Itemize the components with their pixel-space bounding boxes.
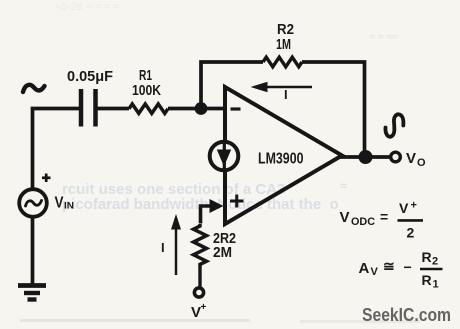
wire: output node to terminal (366, 155, 390, 159)
label I (feedback) (284, 87, 288, 102)
svg-text:1M: 1M (276, 36, 291, 53)
watermark SeekIC.com (362, 305, 451, 325)
wire: source to ground (31, 217, 35, 285)
svg-text:V: V (191, 304, 201, 321)
svg-text:I: I (284, 87, 288, 102)
svg-text:V: V (55, 195, 65, 212)
svg-text:R: R (422, 249, 432, 265)
svg-text:O: O (417, 157, 426, 169)
resistor 2R2 (194, 224, 207, 268)
label V+ (191, 302, 207, 321)
label LM3900 (258, 151, 304, 168)
svg-text:100K: 100K (132, 82, 161, 99)
node: output junction (359, 150, 373, 164)
terminal Vo (open circle) (391, 152, 401, 162)
label VIN (55, 195, 75, 212)
svg-text:V: V (399, 200, 409, 216)
capacitor C1 0.05uF (81, 89, 96, 127)
svg-text:+: + (411, 200, 417, 212)
resistor R2 (263, 57, 302, 67)
current mirror symbol (circle with down arrow) (210, 142, 239, 171)
svg-text:R: R (422, 272, 432, 288)
svg-text:≈ ≈ ≈≈: ≈ ≈ ≈≈ (370, 32, 398, 43)
wire: 2R2 to plus input (with arrowhead) (201, 199, 224, 224)
svg-text:IN: IN (64, 201, 74, 211)
label R2 1M (276, 21, 294, 53)
svg-text:V: V (340, 209, 350, 226)
wire: junction to op-amp minus input (201, 107, 225, 111)
svg-text:2M: 2M (213, 244, 232, 261)
svg-text:≅: ≅ (383, 258, 395, 274)
svg-text:V: V (406, 150, 416, 167)
svg-text:≈: ≈ (340, 178, 347, 193)
terminal V+ (open circle) (194, 288, 203, 297)
wire: op-amp output to node (340, 155, 365, 159)
svg-text:SeekIC.com: SeekIC.com (362, 305, 451, 325)
svg-text:A: A (359, 260, 370, 277)
svg-text:2: 2 (407, 225, 415, 241)
op-amp U1 (triangle) (225, 87, 342, 224)
svg-text:−: − (404, 259, 412, 275)
wire: R2 to output node (right side of feedback loop) (302, 62, 365, 157)
wire: capacitor to R1 (98, 107, 130, 111)
source VIN (AC source circle) (19, 174, 50, 217)
svg-text:+: + (201, 302, 207, 313)
resistor R1 (129, 104, 168, 113)
output waveform squiggle (385, 114, 403, 136)
svg-text:≈5-26 ≈ ≈ ≈ ≈: ≈5-26 ≈ ≈ ≈ ≈ (55, 1, 119, 13)
svg-text:LM3900: LM3900 (258, 151, 304, 168)
svg-text:I: I (161, 240, 165, 255)
label 0.05uF (67, 68, 113, 85)
formula AV = -R2/R1 (359, 249, 443, 291)
svg-text:ODC: ODC (351, 216, 375, 228)
wire: source to capacitor (left corner) (33, 109, 80, 190)
svg-text:2: 2 (432, 256, 438, 268)
formula VODC = V+/2 (340, 200, 424, 241)
wire: feedback path left (junction up and right to R2) (201, 62, 263, 109)
svg-text:V: V (371, 266, 379, 278)
current arrow I (input, pointing up) (171, 214, 181, 275)
svg-text:1: 1 (433, 279, 439, 291)
label R1 100K (132, 67, 161, 99)
wire: 2R2 to V+ terminal (198, 268, 201, 287)
AC waveform symbol (input tilde) (23, 85, 45, 92)
svg-text:0.05μF: 0.05μF (67, 68, 113, 85)
ground (18, 286, 46, 300)
node: inverting input junction (195, 102, 208, 115)
svg-text:=: = (380, 209, 388, 225)
label 2R2 2M (213, 230, 236, 261)
label Vo (406, 150, 426, 169)
wire: R1 to junction node (168, 107, 201, 111)
label I (input) (161, 240, 165, 255)
current arrow I (feedback current) (251, 82, 313, 93)
